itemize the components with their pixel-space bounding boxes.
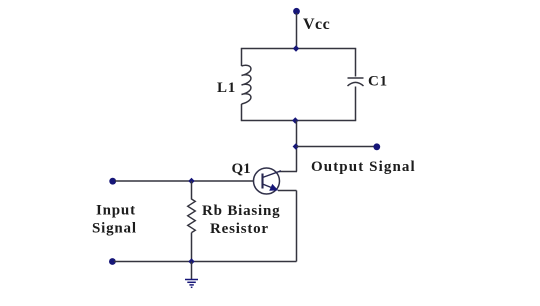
junction node ground (188, 258, 194, 264)
wire Vcc stem (296, 13, 298, 49)
wire tank right lower (355, 87, 357, 121)
wire tank left lower (241, 104, 243, 121)
wire output (297, 146, 376, 148)
junction node tank top (293, 45, 299, 51)
output terminal (373, 143, 380, 150)
svg-text:Input: Input (96, 203, 136, 219)
Vcc terminal (293, 8, 300, 15)
ground (185, 262, 198, 288)
junction node Rb top (188, 178, 194, 184)
svg-text:Q1: Q1 (232, 161, 251, 177)
input bottom terminal (109, 258, 116, 265)
wire tank left upper (241, 49, 243, 67)
svg-text:Vcc: Vcc (303, 16, 330, 33)
input top terminal (109, 178, 116, 185)
junction node output tap (293, 143, 299, 149)
wire bottom rail (114, 261, 297, 263)
svg-text:L1: L1 (217, 80, 236, 96)
transistor Q1 (254, 168, 282, 194)
wire tank top (241, 48, 356, 50)
wire tank bottom (241, 120, 356, 122)
inductor L1 (242, 65, 251, 104)
resistor Rb (188, 199, 196, 233)
svg-text:C1: C1 (368, 74, 388, 90)
svg-text:Resistor: Resistor (210, 221, 269, 237)
wire collector (279, 171, 297, 173)
wire emitter (278, 190, 297, 192)
svg-text:Signal: Signal (92, 221, 137, 237)
wire Rb stub top (191, 181, 193, 200)
wire tank right upper (355, 49, 357, 77)
capacitor C1 (348, 77, 364, 79)
wire tank to collector node (296, 121, 298, 172)
svg-text:Rb Biasing: Rb Biasing (202, 203, 280, 219)
wire base rail (115, 180, 254, 182)
junction node tank bottom (292, 117, 298, 123)
wire emitter down (296, 191, 298, 262)
svg-text:Output Signal: Output Signal (311, 159, 416, 175)
wire Rb stub bottom (191, 233, 193, 262)
